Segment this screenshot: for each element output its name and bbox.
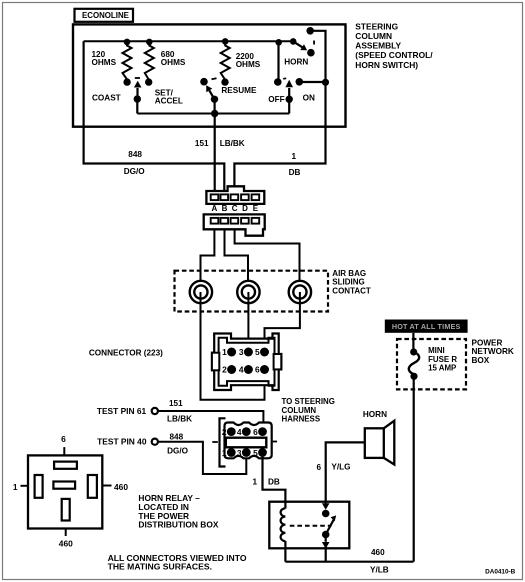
- label 1 DB: [289, 152, 301, 177]
- wire: 848 DG/O from box left down to pin B: [84, 41, 225, 194]
- svg-text:STEERING: STEERING: [355, 21, 398, 31]
- svg-text:HORN: HORN: [363, 410, 387, 419]
- coil 1: [190, 281, 212, 303]
- connector plug A-E: [206, 186, 264, 204]
- wire: fuse down to ground bus: [413, 376, 415, 561]
- relay dashed link: [290, 525, 332, 527]
- svg-text:848: 848: [128, 150, 142, 159]
- svg-text:HORN: HORN: [284, 57, 308, 66]
- horn relay pinout box: [13, 434, 128, 548]
- svg-text:LB/BK: LB/BK: [220, 139, 245, 148]
- svg-text:C: C: [232, 204, 238, 213]
- resistor R3 2200 OHMS: [221, 38, 230, 86]
- svg-text:Y/LB: Y/LB: [370, 566, 389, 575]
- svg-text:1: 1: [222, 347, 227, 357]
- svg-text:DA0410-B: DA0410-B: [485, 568, 516, 575]
- svg-text:4: 4: [239, 365, 244, 375]
- svg-text:5: 5: [255, 347, 260, 357]
- mini fuse: [409, 333, 419, 380]
- svg-text:HOT AT ALL TIMES: HOT AT ALL TIMES: [392, 322, 461, 331]
- svg-text:OFF: OFF: [268, 95, 284, 104]
- coil 3: [289, 281, 311, 303]
- svg-text:ASSEMBLY: ASSEMBLY: [355, 41, 401, 51]
- svg-text:OHMS: OHMS: [92, 58, 117, 67]
- svg-text:6: 6: [253, 427, 258, 437]
- wire: bottom bus inside box: [137, 113, 289, 115]
- harness connector pin dots and numbers: [227, 427, 267, 457]
- harness connector body: [212, 423, 277, 459]
- wire: coil 1 down around to connector 223 pin 6: [201, 292, 265, 400]
- switch wiper COAST / SET-ACCEL: [134, 78, 142, 114]
- svg-text:DB: DB: [268, 478, 280, 487]
- svg-text:HORN SWITCH): HORN SWITCH): [355, 60, 418, 70]
- label TO STEERING COLUMN HARNESS: [282, 397, 335, 424]
- svg-text:DG/O: DG/O: [167, 447, 189, 456]
- svg-text:CONTACT: CONTACT: [332, 286, 371, 295]
- svg-text:ECONOLINE: ECONOLINE: [82, 11, 129, 20]
- horn relay schematic box: [269, 502, 349, 549]
- svg-text:460: 460: [114, 482, 128, 492]
- svg-text:2: 2: [222, 365, 227, 375]
- wire: coil 3 down to connector 223 pin 5: [265, 292, 300, 352]
- harness connector bracket: [220, 418, 226, 466]
- svg-text:AIR BAG: AIR BAG: [332, 269, 366, 278]
- svg-text:Y/LG: Y/LG: [331, 463, 350, 472]
- ECONOLINE label box: [75, 9, 134, 22]
- label 2200 OHMS: [236, 52, 261, 69]
- label MINI FUSE R 15 AMP: [428, 346, 457, 372]
- wire: test pin 61 to harness connector pin 6: [158, 411, 263, 432]
- label 1 DB: [253, 478, 280, 487]
- svg-text:1: 1: [253, 478, 258, 487]
- resistor R1 120 OHMS: [123, 39, 132, 86]
- label SET/ACCEL: [155, 88, 183, 105]
- svg-text:A: A: [212, 204, 218, 213]
- resistor R2 680 OHMS: [145, 39, 154, 86]
- label 120 OHMS: [92, 50, 117, 67]
- note all connectors viewed: [108, 553, 247, 571]
- svg-text:1: 1: [292, 152, 297, 161]
- svg-text:460: 460: [59, 538, 73, 548]
- test pin 40: [97, 437, 158, 447]
- wire: top bus inside box: [84, 40, 294, 42]
- connector 223: [212, 334, 281, 391]
- wire: socket pin A to sliding contact coil 1: [201, 229, 215, 281]
- svg-text:THE MATING SURFACES.: THE MATING SURFACES.: [108, 562, 212, 572]
- label POWER NETWORK BOX: [472, 338, 514, 365]
- wire: test pin 40 under connector to pin 3: [158, 442, 246, 474]
- svg-text:LB/BK: LB/BK: [167, 414, 192, 423]
- label 151 LB/BK at test pin: [167, 399, 192, 423]
- svg-text:6: 6: [255, 365, 260, 375]
- wire: 151 LB/BK down to pin A: [214, 114, 216, 195]
- label 6 Y/LG: [316, 463, 350, 472]
- svg-text:ACCEL: ACCEL: [155, 96, 183, 105]
- svg-text:151: 151: [169, 399, 183, 408]
- svg-text:848: 848: [170, 433, 184, 442]
- test pin 61: [97, 406, 158, 416]
- pin letters A B C D E: [212, 204, 259, 213]
- svg-text:RESUME: RESUME: [221, 86, 257, 95]
- svg-text:(SPEED CONTROL/: (SPEED CONTROL/: [355, 50, 433, 60]
- hot at all times box: [385, 320, 468, 333]
- label 848 DG/O at test pin: [167, 433, 189, 456]
- svg-text:HARNESS: HARNESS: [282, 415, 321, 424]
- svg-text:CONNECTOR (223): CONNECTOR (223): [89, 348, 163, 357]
- svg-text:2: 2: [222, 427, 227, 437]
- wire: horn contact to DB wire, down out of box, left to pin C: [234, 31, 325, 195]
- svg-text:COAST: COAST: [92, 94, 121, 103]
- svg-text:DISTRIBUTION BOX: DISTRIBUTION BOX: [138, 520, 218, 530]
- svg-text:TO STEERING: TO STEERING: [282, 397, 335, 406]
- label 680 OHMS: [161, 50, 186, 67]
- wire: Y/LG horn to relay switch: [326, 442, 365, 501]
- label steering column assembly: [355, 21, 433, 70]
- svg-text:3: 3: [237, 448, 242, 458]
- svg-text:D: D: [242, 204, 248, 213]
- relay coil: [281, 508, 286, 541]
- svg-text:COLUMN: COLUMN: [355, 31, 392, 41]
- svg-text:4: 4: [237, 427, 242, 437]
- svg-text:15 AMP: 15 AMP: [428, 363, 456, 372]
- svg-text:460: 460: [371, 548, 385, 557]
- svg-text:151: 151: [195, 139, 209, 148]
- steering column assembly box: [73, 24, 346, 126]
- wire: 1 DB harness pin 5 to relay coil: [263, 453, 286, 509]
- label 460 Y/LB: [370, 548, 389, 574]
- air bag sliding contact dashed box: [175, 271, 329, 312]
- svg-text:SLIDING: SLIDING: [332, 278, 364, 287]
- svg-text:E: E: [253, 204, 259, 213]
- svg-text:ON: ON: [303, 94, 315, 103]
- svg-text:TEST PIN 61: TEST PIN 61: [97, 406, 147, 416]
- wire: coil bottom to ground bus: [284, 541, 286, 562]
- svg-text:5: 5: [253, 448, 258, 458]
- connector socket below: [204, 214, 265, 235]
- coil 2: [237, 281, 259, 303]
- connector 223 pin dots and numbers: [227, 348, 269, 375]
- svg-text:OHMS: OHMS: [161, 58, 186, 67]
- svg-text:3: 3: [239, 347, 244, 357]
- label 151 LB/BK: [195, 139, 245, 148]
- svg-text:OHMS: OHMS: [236, 60, 261, 69]
- svg-text:TEST PIN 40: TEST PIN 40: [97, 437, 147, 447]
- svg-text:BOX: BOX: [472, 356, 490, 365]
- svg-text:DG/O: DG/O: [124, 167, 146, 176]
- svg-text:6: 6: [316, 463, 321, 472]
- svg-text:1: 1: [13, 482, 18, 492]
- relay switch: [322, 502, 336, 562]
- horn switch: [290, 27, 315, 57]
- switch wiper RESUME: [200, 78, 218, 114]
- off/on switch: [274, 39, 329, 114]
- wire: coil 2 down to connector 223 pin 3: [247, 292, 249, 352]
- junction node 151 on bottom bus: [211, 110, 218, 117]
- svg-text:B: B: [222, 204, 228, 213]
- label HORN RELAY: [138, 493, 218, 529]
- horn speaker: [365, 421, 395, 465]
- label 848 DG/O: [124, 150, 146, 176]
- svg-text:POWER: POWER: [472, 338, 503, 347]
- wire: socket pin C to sliding contact coil 3: [235, 229, 300, 281]
- svg-text:1: 1: [222, 448, 227, 458]
- label AIR BAG SLIDING CONTACT: [332, 269, 371, 296]
- power network box dashed: [397, 339, 466, 389]
- svg-text:DB: DB: [289, 168, 301, 177]
- wire: ground bus 460 Y/LB: [285, 561, 413, 563]
- svg-text:6: 6: [61, 434, 66, 444]
- wire: socket pin B to sliding contact coil 2: [225, 229, 249, 281]
